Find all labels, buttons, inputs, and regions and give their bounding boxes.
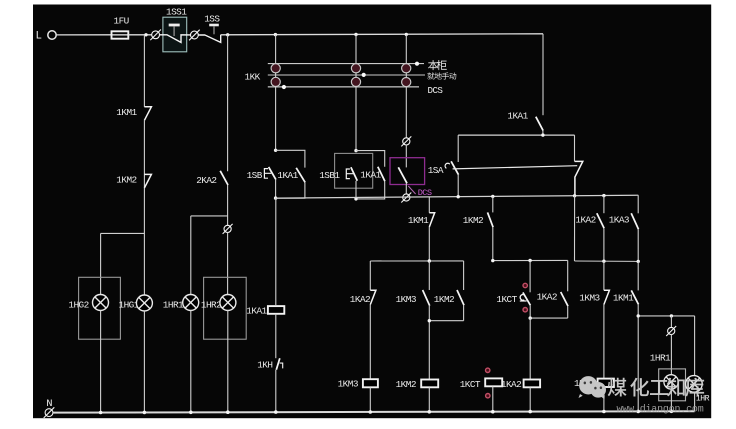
svg-text:1KK: 1KK — [245, 71, 261, 82]
junction — [573, 194, 576, 197]
rail — [429, 320, 463, 322]
wire — [227, 310, 229, 412]
label 本柜 — [428, 60, 438, 70]
svg-text:1KM1: 1KM1 — [613, 293, 634, 304]
svg-text:L: L — [36, 31, 42, 43]
wire — [275, 180, 277, 199]
junction — [354, 197, 357, 200]
terminal circle (slashed) — [189, 30, 200, 41]
svg-text:1SS1: 1SS1 — [166, 7, 187, 18]
wire top bus — [221, 34, 543, 35]
terminal circle (slashed) — [150, 30, 161, 41]
junction — [354, 149, 357, 152]
wire — [637, 304, 639, 411]
watermark text 煤化工知库 — [608, 378, 627, 397]
svg-text:1KM1: 1KM1 — [408, 215, 429, 226]
wire jog to 1HG2 column — [101, 232, 145, 234]
svg-text:1KA1: 1KA1 — [277, 170, 298, 181]
rail — [575, 260, 639, 262]
wire — [670, 335, 672, 375]
wire — [143, 35, 145, 107]
terminal circle (slashed) — [223, 224, 233, 234]
svg-text:1HR1: 1HR1 — [163, 299, 184, 310]
wire — [637, 229, 639, 261]
junction — [637, 314, 640, 317]
wire — [275, 314, 277, 358]
mid rail — [276, 195, 639, 198]
svg-text:1SA: 1SA — [428, 165, 444, 176]
svg-text:1KM2: 1KM2 — [116, 175, 136, 186]
wire — [227, 233, 229, 295]
indicator box around 1HG2 — [79, 277, 121, 339]
switch 1SA right pole — [574, 135, 576, 161]
wire L to fuse — [56, 34, 111, 36]
wire — [369, 387, 371, 412]
wire 1KA1 drop — [542, 34, 544, 115]
wire — [428, 227, 430, 261]
svg-text:1KA2: 1KA2 — [501, 379, 521, 390]
watermark wechat icon — [579, 376, 607, 399]
terminal circle (slashed) — [401, 136, 411, 146]
svg-text:1FU: 1FU — [114, 15, 129, 26]
svg-text:2KA2: 2KA2 — [196, 175, 216, 186]
svg-text:1SB1: 1SB1 — [319, 170, 340, 181]
wire 1SA right pole down — [574, 196, 576, 261]
red dot — [486, 394, 490, 398]
wire — [428, 387, 430, 412]
svg-text:1KM2: 1KM2 — [463, 215, 483, 226]
svg-text:1KM3: 1KM3 — [396, 294, 417, 305]
wire — [492, 227, 494, 260]
wire — [529, 318, 531, 379]
svg-text:1KA1: 1KA1 — [246, 305, 267, 316]
junction — [670, 410, 674, 414]
svg-text:1KM3: 1KM3 — [579, 293, 600, 304]
wire — [405, 35, 407, 138]
svg-text:1KA1: 1KA1 — [507, 110, 528, 121]
junction — [541, 133, 544, 136]
junction — [354, 33, 357, 36]
junction — [274, 149, 277, 152]
wire — [100, 310, 102, 412]
svg-text:DCS: DCS — [428, 85, 444, 96]
wire — [603, 387, 605, 412]
junction — [428, 410, 432, 414]
junction — [602, 260, 605, 263]
svg-text:1KA2: 1KA2 — [575, 214, 595, 225]
svg-text:1KM2: 1KM2 — [396, 379, 416, 390]
1SA top rail — [458, 134, 574, 136]
wire — [603, 228, 605, 261]
wire — [143, 120, 145, 295]
DCS pointer — [408, 186, 415, 194]
junction — [274, 196, 277, 199]
wire — [529, 387, 531, 412]
svg-text:1KM3: 1KM3 — [338, 378, 359, 389]
wire — [227, 185, 229, 225]
junction — [428, 259, 431, 262]
wire — [492, 386, 494, 412]
lamp 1HR — [686, 376, 703, 393]
wire branch to 1HR1 — [191, 215, 228, 217]
svg-text:1KH: 1KH — [257, 359, 272, 370]
wire — [670, 389, 672, 411]
junction — [602, 194, 605, 197]
svg-text:1KM2: 1KM2 — [434, 294, 454, 305]
svg-text:1KCT: 1KCT — [460, 379, 481, 390]
wire — [428, 306, 430, 380]
wire — [694, 316, 696, 376]
wire — [529, 305, 531, 318]
wire — [369, 305, 371, 380]
wire — [190, 310, 192, 412]
junction — [369, 410, 373, 414]
rail — [530, 317, 568, 319]
svg-text:www.diangon.com: www.diangon.com — [617, 404, 704, 416]
wire — [227, 35, 229, 171]
svg-text:1KA3: 1KA3 — [609, 214, 630, 225]
svg-text:1KA2: 1KA2 — [537, 291, 557, 302]
junction — [528, 410, 532, 414]
wire — [405, 183, 407, 194]
svg-text:1HG2: 1HG2 — [68, 299, 88, 310]
red dot — [523, 308, 527, 312]
junction — [457, 195, 460, 198]
junction — [636, 410, 640, 414]
rail — [493, 259, 568, 261]
red dot — [486, 368, 490, 372]
wire — [275, 370, 277, 413]
svg-text:1SS: 1SS — [204, 13, 220, 24]
red dot — [523, 283, 527, 287]
label 就地手动 — [427, 72, 434, 79]
junction — [99, 411, 103, 415]
wire — [694, 392, 696, 411]
terminal circle (slashed) — [401, 193, 411, 203]
wire — [143, 311, 145, 413]
junction — [144, 33, 147, 36]
highlight box 1SB1 — [335, 153, 373, 188]
junction — [602, 410, 606, 414]
1KK contact circles — [271, 64, 280, 73]
bottom bus N — [53, 411, 695, 412]
wire — [670, 316, 672, 328]
indicator box around 1HR1 — [659, 369, 686, 401]
1KK position dots — [282, 85, 286, 89]
terminal circle (slashed) — [666, 326, 676, 336]
junction — [529, 316, 532, 319]
svg-text:1SB: 1SB — [247, 170, 263, 181]
svg-text:1KA1: 1KA1 — [360, 170, 381, 181]
svg-text:1HR1: 1HR1 — [650, 352, 671, 363]
junction — [226, 410, 230, 414]
junction — [143, 411, 147, 415]
wire fuse to 1SS1 — [128, 34, 152, 36]
junction — [274, 410, 278, 414]
svg-text:1KA2: 1KA2 — [350, 294, 370, 305]
svg-text:1KM1: 1KM1 — [116, 107, 137, 118]
wire — [275, 35, 277, 151]
rail — [638, 315, 694, 317]
1SA linkage bar — [453, 166, 578, 169]
wire — [275, 198, 277, 306]
junction — [226, 33, 229, 36]
wire — [603, 305, 605, 380]
DCS remote switch (purple box) — [390, 158, 425, 185]
junction — [428, 319, 431, 322]
wire — [567, 306, 569, 318]
wire — [355, 35, 357, 151]
junction — [491, 259, 494, 262]
junction — [274, 33, 277, 36]
junction — [491, 410, 495, 414]
svg-text:1KCT: 1KCT — [496, 294, 517, 305]
svg-text:1HR2: 1HR2 — [201, 299, 221, 310]
indicator box around 1HR2 — [204, 277, 247, 339]
junction — [491, 195, 494, 198]
wire — [355, 181, 357, 199]
wire — [405, 145, 407, 167]
lamp 1HR1 — [664, 375, 678, 389]
junction — [405, 33, 408, 36]
terminal circle (slashed) — [44, 407, 55, 418]
junction — [189, 411, 193, 415]
wire — [463, 305, 465, 321]
rail — [370, 260, 463, 262]
